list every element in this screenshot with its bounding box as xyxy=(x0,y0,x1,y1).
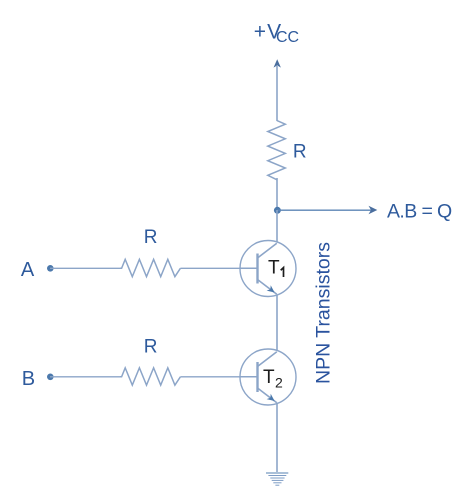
transistor T1 xyxy=(240,241,296,297)
resistor R (input B) xyxy=(120,368,180,385)
wire T2 emitter to ground xyxy=(276,404,278,472)
svg-text:A: A xyxy=(21,259,35,281)
svg-text:A.B = Q: A.B = Q xyxy=(387,200,452,222)
wire T1 emitter to T2 collector xyxy=(276,296,278,351)
wire Vcc supply arrow xyxy=(274,59,281,121)
svg-text:NPN Transistors: NPN Transistors xyxy=(313,242,335,384)
svg-text:R: R xyxy=(144,227,158,248)
node output junction xyxy=(274,207,281,214)
node input A terminal xyxy=(47,265,54,272)
resistor R (input A) xyxy=(120,259,180,276)
wire output with arrow xyxy=(277,206,377,214)
svg-text:R: R xyxy=(144,337,158,358)
svg-text:R: R xyxy=(293,141,307,162)
svg-text:B: B xyxy=(22,368,35,390)
wire resistor to T2 base xyxy=(180,376,240,378)
svg-text:CC: CC xyxy=(276,29,299,46)
svg-text:T: T xyxy=(268,257,280,278)
wire resistor to output node xyxy=(276,178,278,210)
svg-text:2: 2 xyxy=(275,375,283,391)
resistor R (collector pull-up) xyxy=(268,121,286,180)
node input B terminal xyxy=(47,374,54,381)
transistor T2 xyxy=(240,349,296,405)
wire input B to resistor xyxy=(50,376,120,378)
wire node to T1 collector xyxy=(276,210,278,242)
wire resistor to T1 base xyxy=(180,267,240,269)
svg-text:T: T xyxy=(263,367,275,388)
node +VCC label xyxy=(254,20,299,46)
transistor T1 label xyxy=(268,257,284,278)
wire input A to resistor xyxy=(50,267,120,269)
ground xyxy=(266,473,288,485)
transistor T2 label xyxy=(263,367,283,390)
